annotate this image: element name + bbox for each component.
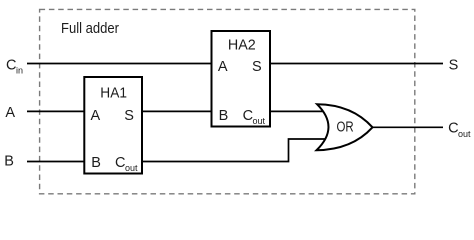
svg-text:OR: OR	[337, 119, 354, 135]
svg-text:C: C	[448, 121, 458, 137]
wire B to HA1 pin B and HA1 pin Cout run	[27, 139, 327, 162]
svg-text:HA1: HA1	[100, 86, 127, 102]
svg-text:B: B	[4, 154, 14, 170]
pin Cout of HA1	[115, 155, 138, 173]
svg-text:C: C	[6, 58, 16, 74]
svg-text:A: A	[91, 108, 101, 124]
node B label	[4, 154, 14, 170]
svg-text:HA2: HA2	[228, 38, 256, 54]
svg-text:out: out	[125, 163, 138, 173]
half adder HA2	[212, 31, 271, 127]
pin B of HA2	[219, 108, 229, 124]
pin A of HA1	[91, 108, 101, 124]
svg-text:B: B	[91, 155, 101, 171]
full adder enclosure (dashed boundary)	[40, 9, 415, 193]
svg-text:C: C	[243, 108, 253, 124]
wire C_in to HA2 pin A and HA2 pin S to S output	[27, 63, 443, 65]
OR gate U1	[317, 104, 373, 150]
svg-text:Full adder: Full adder	[61, 21, 119, 37]
svg-text:B: B	[219, 108, 229, 124]
label Full adder	[61, 21, 119, 37]
pin B of HA1	[91, 155, 101, 171]
node C_out label	[448, 121, 471, 139]
svg-text:out: out	[253, 116, 266, 126]
wire OR output to C_out	[371, 126, 443, 128]
svg-text:out: out	[458, 129, 471, 139]
pin S of HA1	[124, 108, 134, 124]
pin S of HA2	[252, 59, 262, 75]
svg-text:in: in	[16, 66, 23, 76]
svg-text:A: A	[5, 105, 15, 121]
half adder HA1	[84, 77, 142, 174]
wire A to HA1 pin A, HA1 pin S to HA2 pin B, HA2 pin Cout to OR input	[27, 110, 326, 112]
pin A of HA2	[218, 59, 228, 75]
svg-text:S: S	[252, 59, 262, 75]
node S label	[449, 57, 459, 73]
pin Cout of HA2	[243, 108, 266, 126]
svg-text:S: S	[124, 108, 134, 124]
svg-text:S: S	[449, 57, 459, 73]
node A label	[5, 105, 15, 121]
svg-text:A: A	[218, 59, 228, 75]
svg-text:C: C	[115, 155, 125, 171]
node C_in label	[6, 58, 23, 76]
